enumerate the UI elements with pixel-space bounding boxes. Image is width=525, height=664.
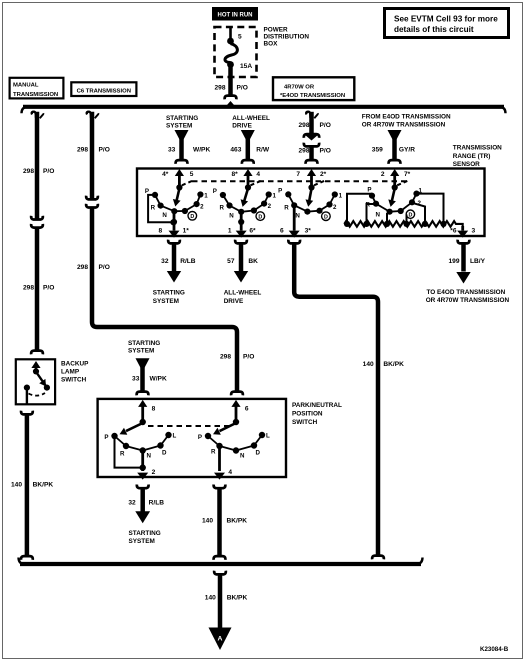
svg-text:HOT IN RUN: HOT IN RUN — [218, 12, 253, 18]
svg-text:C6 TRANSMISSION: C6 TRANSMISSION — [77, 89, 131, 95]
svg-text:298: 298 — [298, 148, 309, 155]
svg-text:199: 199 — [448, 258, 459, 265]
svg-text:298: 298 — [220, 354, 231, 361]
HOT IN RUN power tag — [212, 7, 258, 21]
backup lamp switch — [16, 359, 55, 404]
svg-text:R/LB: R/LB — [149, 500, 165, 507]
backup lamp switch label — [61, 361, 89, 384]
svg-text:140: 140 — [202, 518, 213, 525]
wire 140 BK/PK from TR sensor to ground bus — [288, 240, 404, 556]
svg-text:*6: *6 — [450, 228, 457, 235]
svg-text:8: 8 — [159, 228, 163, 235]
svg-text:SYSTEM: SYSTEM — [166, 123, 192, 130]
svg-text:W/PK: W/PK — [193, 147, 210, 154]
park/neutral position switch label — [292, 402, 342, 426]
svg-text:BK/PK: BK/PK — [227, 594, 248, 601]
P/N switch linkage dashed rail — [148, 425, 230, 427]
inline connector at ground bus right — [372, 556, 384, 560]
svg-text:details of this circuit: details of this circuit — [394, 25, 474, 34]
svg-text:BK: BK — [248, 258, 258, 265]
P/N switch left wafer (pin 8 to pin 2) — [104, 400, 176, 480]
svg-text:140: 140 — [11, 482, 22, 489]
svg-text:*E4OD TRANSMISSION: *E4OD TRANSMISSION — [280, 93, 345, 99]
svg-text:298: 298 — [23, 168, 34, 175]
svg-text:4: 4 — [256, 171, 260, 178]
ground bus rail — [19, 558, 423, 565]
svg-text:298: 298 — [77, 147, 88, 154]
wire 57 BK to all-wheel drive — [224, 240, 262, 305]
svg-text:SYSTEM: SYSTEM — [129, 538, 155, 545]
svg-text:P/O: P/O — [320, 122, 331, 129]
inline connector above TR sensor — [304, 134, 319, 146]
svg-text:BK/PK: BK/PK — [383, 361, 404, 368]
P/N switch right wafer (pin 6 to pin 4) — [198, 400, 270, 480]
svg-text:N: N — [376, 212, 381, 219]
TR sensor switch wafer 2 (pins 8*/4 to 1/6*) — [213, 169, 277, 238]
svg-text:33: 33 — [132, 376, 140, 383]
wire 298 P/O left branch to backup lamp switch — [23, 112, 54, 220]
svg-text:P/O: P/O — [243, 354, 254, 361]
svg-text:R: R — [120, 451, 125, 458]
svg-text:1: 1 — [339, 193, 343, 200]
svg-text:STARTING: STARTING — [128, 340, 160, 347]
svg-text:P: P — [367, 187, 371, 194]
svg-text:DRIVE: DRIVE — [232, 123, 252, 130]
svg-text:D: D — [324, 215, 328, 221]
transmission range sensor box — [137, 169, 485, 237]
power bus rail — [22, 107, 506, 114]
svg-text:POSITION: POSITION — [292, 411, 323, 418]
svg-text:298: 298 — [77, 264, 88, 271]
svg-text:TO E4OD TRANSMISSION: TO E4OD TRANSMISSION — [427, 289, 506, 296]
svg-text:33: 33 — [168, 147, 176, 154]
svg-text:2: 2 — [381, 171, 385, 178]
svg-text:R: R — [151, 205, 156, 212]
svg-text:140: 140 — [363, 361, 374, 368]
svg-text:140: 140 — [205, 594, 216, 601]
svg-text:359: 359 — [372, 147, 383, 154]
svg-text:1*: 1* — [183, 228, 190, 235]
TR sensor switch wafer 1 (pins 4*/5 to 8/1*) — [145, 169, 208, 238]
svg-text:N: N — [147, 453, 152, 460]
svg-text:PARK/NEUTRAL: PARK/NEUTRAL — [292, 402, 342, 409]
wire 298 P/O to park/neutral switch — [77, 207, 254, 395]
svg-text:298: 298 — [23, 285, 34, 292]
note box See EVTM — [385, 9, 509, 38]
svg-text:N: N — [240, 453, 245, 460]
wire 140 BK/PK from P/N switch to ground bus — [202, 485, 247, 560]
svg-text:TRANSMISSION: TRANSMISSION — [453, 145, 502, 152]
svg-text:5: 5 — [238, 34, 242, 41]
svg-text:See EVTM Cell 93 for more: See EVTM Cell 93 for more — [394, 15, 498, 24]
ground connector A — [209, 628, 232, 651]
svg-text:P/O: P/O — [99, 264, 110, 271]
svg-text:3: 3 — [472, 228, 476, 235]
svg-text:7*: 7* — [404, 171, 411, 178]
svg-text:DRIVE: DRIVE — [224, 298, 244, 305]
svg-text:MANUAL: MANUAL — [13, 83, 39, 89]
svg-text:4: 4 — [228, 469, 232, 476]
svg-text:D: D — [258, 215, 262, 221]
diagram id K23084-B — [480, 646, 509, 653]
svg-text:D: D — [190, 214, 194, 220]
svg-text:2: 2 — [268, 203, 272, 210]
svg-text:298: 298 — [298, 122, 309, 129]
svg-text:32: 32 — [128, 500, 136, 507]
svg-text:6*: 6* — [249, 228, 256, 235]
starting system feed into TR sensor — [166, 115, 210, 164]
svg-text:57: 57 — [227, 258, 235, 265]
wire 199 LB/Y to E4OD transmission — [426, 240, 510, 304]
svg-text:N: N — [295, 212, 300, 219]
svg-text:D: D — [256, 450, 261, 457]
svg-text:D: D — [408, 213, 412, 219]
svg-text:ALL-WHEEL: ALL-WHEEL — [232, 115, 270, 122]
selector linkage dashed rail — [192, 180, 408, 182]
svg-text:1: 1 — [273, 193, 277, 200]
TR sensor resistor wafer (pins 2/7* to *6/3) — [344, 169, 476, 238]
svg-text:FROM E4OD TRANSMISSION: FROM E4OD TRANSMISSION — [362, 113, 451, 120]
all-wheel drive feed into TR sensor — [230, 115, 270, 164]
svg-text:BK/PK: BK/PK — [33, 482, 54, 489]
wire 32 R/LB to starting system — [153, 240, 196, 305]
fuse 5 15A — [225, 27, 252, 70]
starting system feed into park/neutral switch — [128, 340, 167, 396]
svg-text:6: 6 — [245, 406, 249, 413]
svg-text:SYSTEM: SYSTEM — [128, 348, 154, 355]
svg-text:BACKUP: BACKUP — [61, 361, 89, 368]
svg-text:P/O: P/O — [320, 148, 331, 155]
svg-text:2*: 2* — [320, 171, 327, 178]
svg-text:L: L — [173, 433, 177, 440]
svg-text:R/LB: R/LB — [180, 258, 196, 265]
svg-text:P/O: P/O — [43, 168, 54, 175]
svg-text:8: 8 — [152, 406, 156, 413]
svg-text:7: 7 — [296, 171, 300, 178]
svg-text:R: R — [211, 449, 216, 456]
svg-text:N: N — [162, 212, 167, 219]
svg-text:STARTING: STARTING — [166, 115, 198, 122]
transmission range sensor label — [453, 145, 502, 168]
svg-text:BOX: BOX — [264, 40, 279, 47]
svg-text:OR 4R70W TRANSMISSION: OR 4R70W TRANSMISSION — [362, 122, 446, 129]
svg-text:P: P — [104, 434, 108, 441]
svg-text:R: R — [220, 205, 225, 212]
svg-text:1: 1 — [204, 193, 208, 200]
svg-text:P: P — [198, 434, 202, 441]
svg-text:8*: 8* — [231, 171, 238, 178]
svg-text:N: N — [229, 213, 234, 220]
wire 140 BK/PK from backup lamp switch to ground bus — [11, 411, 53, 560]
svg-text:SWITCH: SWITCH — [61, 377, 87, 384]
inline connector on second 298 wire — [86, 196, 98, 208]
svg-text:4R70W OR: 4R70W OR — [284, 85, 315, 91]
svg-text:K23084-B: K23084-B — [480, 646, 509, 653]
svg-text:32: 32 — [161, 258, 169, 265]
svg-text:15A: 15A — [240, 63, 252, 70]
svg-text:6: 6 — [280, 228, 284, 235]
svg-text:P/O: P/O — [99, 147, 110, 154]
wire 298 P/O lower jumper into TR sensor — [298, 146, 330, 164]
wire 32 R/LB to starting system lower — [128, 485, 164, 546]
wire 298 P/O branch into TR sensor — [298, 112, 330, 134]
svg-text:P: P — [213, 188, 217, 195]
svg-text:BK/PK: BK/PK — [227, 518, 248, 525]
svg-text:4*: 4* — [162, 171, 169, 178]
svg-text:LAMP: LAMP — [61, 369, 80, 376]
svg-text:P: P — [278, 188, 282, 195]
svg-text:TRANSMISSION: TRANSMISSION — [13, 92, 58, 98]
svg-text:STARTING: STARTING — [129, 530, 161, 537]
MANUAL TRANSMISSION tag — [10, 78, 64, 99]
svg-text:D: D — [162, 450, 167, 457]
wire 298 P/O lower segment — [23, 227, 54, 354]
svg-text:STARTING: STARTING — [153, 290, 185, 297]
wire 140 BK/PK to ground A — [205, 571, 248, 629]
inline connector on left 298 wire — [31, 216, 43, 228]
park/neutral position switch box — [98, 399, 286, 477]
4R70W OR E4OD TRANSMISSION tag — [273, 77, 354, 100]
power distribution box (dashed) — [215, 27, 310, 77]
wire 298 P/O second branch — [77, 112, 110, 200]
svg-text:W/PK: W/PK — [150, 376, 167, 383]
svg-text:P/O: P/O — [237, 84, 248, 91]
svg-text:2: 2 — [200, 204, 204, 211]
svg-text:2: 2 — [152, 469, 156, 476]
svg-text:SYSTEM: SYSTEM — [153, 298, 179, 305]
svg-text:1: 1 — [228, 228, 232, 235]
svg-text:LB/Y: LB/Y — [470, 258, 486, 265]
svg-text:ALL-WHEEL: ALL-WHEEL — [224, 290, 262, 297]
svg-text:R: R — [284, 204, 289, 211]
wire 298 P/O fuse to bus — [214, 66, 247, 96]
svg-text:RANGE (TR): RANGE (TR) — [453, 153, 491, 160]
svg-text:P/O: P/O — [43, 285, 54, 292]
svg-text:463: 463 — [230, 147, 241, 154]
svg-text:L: L — [266, 433, 270, 440]
inline connector on fuse wire at bus — [225, 96, 237, 105]
C6 TRANSMISSION tag — [71, 82, 136, 96]
svg-text:SWITCH: SWITCH — [292, 419, 318, 426]
TR sensor switch wafer 3 (pins 7/2* to 6/3*) — [278, 169, 342, 238]
svg-text:2: 2 — [333, 204, 337, 211]
svg-text:GY/R: GY/R — [399, 147, 415, 154]
svg-text:298: 298 — [214, 84, 225, 91]
svg-text:R/W: R/W — [256, 147, 270, 154]
svg-text:A: A — [218, 636, 223, 643]
svg-text:DISTRIBUTION: DISTRIBUTION — [264, 33, 310, 40]
svg-text:SENSOR: SENSOR — [453, 161, 480, 168]
svg-text:OR 4R70W TRANSMISSION: OR 4R70W TRANSMISSION — [426, 297, 510, 304]
svg-text:5: 5 — [190, 171, 194, 178]
svg-text:3*: 3* — [305, 228, 312, 235]
from E4OD transmission feed — [362, 113, 451, 163]
